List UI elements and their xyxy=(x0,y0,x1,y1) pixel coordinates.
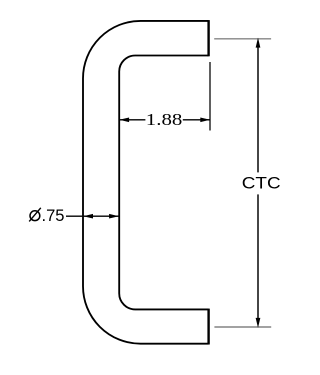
arrowhead top of CTC xyxy=(256,38,261,48)
diameter symbol slash xyxy=(29,208,41,222)
svg-text:.75: .75 xyxy=(42,206,65,225)
arrowhead right of 1.88 xyxy=(200,117,210,122)
svg-text:1.88: 1.88 xyxy=(146,110,183,129)
extension line for 1.88 dimension xyxy=(209,62,211,131)
arrowhead left of diameter dim xyxy=(83,214,93,219)
CTC dimension line lower segment xyxy=(257,194,259,318)
bottom extension line for CTC xyxy=(214,326,271,328)
arrowhead right of diameter dim xyxy=(109,214,119,219)
dimension line 1.88 right segment xyxy=(183,119,210,121)
handle outline inner contour xyxy=(119,56,208,310)
top end cap xyxy=(207,20,209,56)
top extension line for CTC xyxy=(214,38,271,40)
dimension line diameter xyxy=(84,215,119,217)
leader line for diameter dimension xyxy=(66,215,82,217)
arrowhead bottom of CTC xyxy=(256,318,261,328)
CTC dimension line upper segment xyxy=(257,48,259,173)
dimension line 1.88 left segment xyxy=(120,119,146,121)
bottom end cap xyxy=(207,309,209,345)
svg-text:CTC: CTC xyxy=(242,175,281,193)
handle outline outer contour xyxy=(83,21,209,344)
diameter symbol circle xyxy=(30,211,40,221)
arrowhead left of 1.88 xyxy=(119,117,129,122)
